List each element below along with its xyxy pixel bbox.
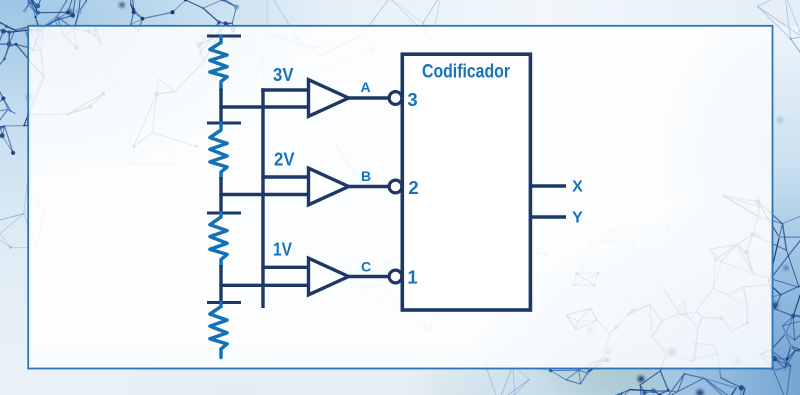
svg-text:2: 2 [408,177,418,198]
svg-text:1: 1 [407,267,417,288]
wire: comparator U3 output to pin 1 [349,275,390,278]
svg-text:B: B [361,168,371,184]
svg-text:3V: 3V [273,64,294,85]
op-amp comparator U3 [309,258,349,295]
wire: output X [530,184,566,187]
wire: output Y [530,215,566,218]
op-amp comparator U2 [309,168,349,205]
node bar: rail between R1 and R2 [207,122,241,125]
wire: bus to comparator U1 non-inverting input [261,88,308,91]
inverting bubble on pin 1 [389,270,402,283]
svg-text:1V: 1V [273,239,293,260]
wire: tap to comparator U2 inverting input [219,193,308,196]
wire: ladder segment R1-bar2 [219,89,222,125]
wire: ladder segment R2-bar3 [219,177,222,215]
svg-text:Y: Y [572,210,583,227]
resistor R3 [210,213,227,267]
wire: tap to comparator U3 inverting input [219,284,308,287]
resistor R1 [210,36,227,90]
resistor R2 [210,123,227,179]
wire: comparator U1 output to pin 3 [349,96,390,99]
wire: comparator U2 output to pin 2 [349,185,390,188]
wire: ladder segment R3-bar4 [219,265,222,304]
inverting bubble on pin 3 [389,92,402,105]
node bar: top supply rail [207,35,241,38]
node bar: rail between R2 and R3 [207,212,241,215]
svg-text:C: C [361,259,371,275]
wire: vertical input bus [261,88,264,308]
svg-text:X: X [572,179,583,196]
node bar: rail between R3 and R4 [207,301,241,304]
wire: bus to comparator U2 non-inverting input [261,175,308,178]
inverting bubble on pin 2 [389,180,402,193]
op-amp comparator U1 [309,80,349,117]
resistor R4 [210,303,227,358]
svg-text:3: 3 [407,89,417,110]
svg-text:Codificador: Codificador [422,62,511,83]
encoder U4 Codificador box [402,54,530,310]
svg-text:2V: 2V [274,149,295,170]
wire: tap to comparator U1 inverting input [219,105,308,108]
wire: bus to comparator U3 non-inverting input [261,266,308,269]
svg-text:A: A [360,79,370,95]
